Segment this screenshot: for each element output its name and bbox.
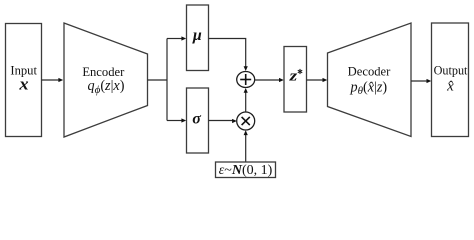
svg-text:x: x	[18, 74, 28, 93]
Encoder trapezoid	[64, 23, 148, 137]
wire branch to mu	[167, 38, 183, 40]
mu box	[187, 5, 209, 71]
svg-text:x̂: x̂	[446, 79, 454, 95]
wire times to plus	[245, 92, 247, 112]
Decoder trapezoid	[328, 23, 412, 137]
epsilon box	[216, 162, 276, 178]
wire z to Decoder	[307, 79, 325, 81]
times circle (multiplier)	[237, 112, 255, 130]
sigma box	[187, 88, 209, 153]
wire branch to sigma	[167, 120, 183, 122]
svg-text:Encoder: Encoder	[82, 65, 125, 79]
wire Input to Encoder	[42, 79, 61, 81]
Output box	[432, 23, 469, 137]
wire epsilon to times	[245, 134, 247, 163]
wire Encoder to branch	[148, 79, 168, 81]
wire Decoder to Output	[411, 80, 428, 82]
svg-text:pθ(x̂|z): pθ(x̂|z)	[349, 79, 387, 97]
svg-text:σ: σ	[192, 110, 201, 127]
svg-text:Decoder: Decoder	[348, 64, 391, 78]
arrowhead into Encoder	[58, 78, 63, 82]
z* box	[284, 47, 307, 113]
Input box	[6, 24, 42, 137]
svg-text:ε~N(0, 1): ε~N(0, 1)	[219, 163, 273, 178]
plus circle (adder)	[237, 72, 255, 88]
wire mu to plus	[209, 39, 246, 68]
wire plus to z	[255, 79, 281, 81]
svg-text:z: z	[288, 69, 297, 85]
wire sigma to times	[209, 120, 234, 122]
branch vertical wire	[166, 39, 168, 121]
svg-text:qϕ(z|x): qϕ(z|x)	[88, 78, 125, 96]
svg-text:Output: Output	[434, 64, 468, 78]
svg-text:μ: μ	[192, 27, 202, 44]
